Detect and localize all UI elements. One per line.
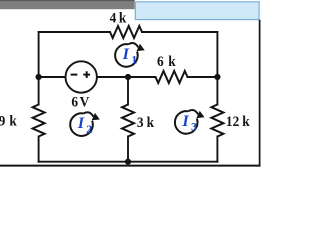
- resistor R5 12k: [211, 105, 223, 137]
- mesh current loop I3: [175, 110, 205, 134]
- resistor R2 9k: [33, 105, 45, 137]
- node D junction dot bottom: [125, 159, 131, 165]
- svg-text:2: 2: [86, 122, 92, 136]
- label 12 k: [226, 113, 250, 130]
- svg-text:k: k: [168, 53, 175, 70]
- svg-text:1: 1: [131, 53, 137, 67]
- mesh current loop I1: [115, 43, 145, 67]
- label 9 k: [0, 113, 17, 130]
- svg-text:k: k: [119, 10, 126, 27]
- node A junction dot left: [36, 74, 42, 80]
- svg-text:I: I: [181, 111, 189, 130]
- node B junction dot center: [125, 74, 131, 80]
- voltage source V1 6V: [66, 61, 97, 92]
- resistor R1 4k: [110, 26, 142, 38]
- svg-text:3: 3: [137, 114, 144, 131]
- svg-text:9: 9: [0, 113, 5, 130]
- mesh current loop I2: [70, 112, 100, 136]
- wire right rail: [216, 32, 218, 162]
- highlighted selection box: [135, 2, 259, 20]
- label 6 k: [157, 53, 176, 70]
- wire bottom rail: [39, 161, 218, 163]
- svg-text:3: 3: [191, 120, 197, 134]
- svg-text:k: k: [9, 113, 16, 130]
- node C junction dot right: [214, 74, 220, 80]
- circuit schematic figure: [0, 0, 262, 168]
- wire middle vertical branch: [127, 77, 129, 162]
- wire middle rail right segment: [97, 76, 217, 78]
- label 4 k: [110, 10, 127, 27]
- svg-text:k: k: [147, 114, 154, 131]
- svg-text:V: V: [80, 94, 90, 111]
- minus sign: [71, 74, 78, 76]
- page bottom rule: [0, 165, 260, 167]
- svg-text:I: I: [122, 44, 130, 63]
- label 6 V: [71, 94, 89, 111]
- resistor R3 6k: [156, 71, 188, 83]
- svg-text:k: k: [242, 113, 249, 130]
- page right border: [259, 20, 261, 167]
- page header gray bar: [0, 0, 135, 9]
- svg-text:I: I: [77, 113, 85, 132]
- plus sign: [83, 71, 90, 78]
- wire top rail: [39, 31, 218, 33]
- svg-text:6: 6: [157, 53, 164, 70]
- svg-text:4: 4: [110, 10, 117, 27]
- svg-text:12: 12: [226, 113, 239, 130]
- svg-text:6: 6: [71, 94, 78, 111]
- label 3 k: [137, 114, 154, 131]
- resistor R4 3k: [122, 105, 134, 137]
- wire middle rail left segment: [39, 76, 66, 78]
- wire left rail: [38, 32, 40, 162]
